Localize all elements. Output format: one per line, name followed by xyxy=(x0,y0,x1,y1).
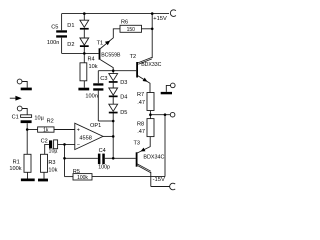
svg-text:R6: R6 xyxy=(121,20,128,26)
svg-text:10µ: 10µ xyxy=(34,116,44,122)
wire feedback horizontal to R5 xyxy=(92,176,165,178)
svg-text:−: − xyxy=(77,143,80,149)
wire op-amp output xyxy=(103,135,113,137)
svg-text:100p: 100p xyxy=(98,164,110,170)
diode D4 xyxy=(109,88,118,95)
input signal arrow xyxy=(15,96,21,101)
junction rail D1 xyxy=(83,12,86,15)
capacitor C5 plate 1 xyxy=(56,30,67,32)
wire top +15V rail xyxy=(62,13,169,15)
svg-text:BDX34C: BDX34C xyxy=(143,155,164,161)
wire base wire C5 to T1 xyxy=(62,52,99,54)
svg-text:T2: T2 xyxy=(130,54,137,60)
junction feedback output xyxy=(164,113,167,116)
wire T3 collector vertical xyxy=(150,172,152,187)
resistor R8 xyxy=(147,119,154,137)
svg-text:R8: R8 xyxy=(137,121,144,127)
wire D1 to D2 xyxy=(83,30,85,38)
resistor R4 xyxy=(80,63,87,81)
svg-text:.47: .47 xyxy=(137,129,145,135)
wire -15V rail xyxy=(151,186,170,188)
junction rail T2 collector xyxy=(151,12,154,15)
resistor R7 xyxy=(147,93,154,111)
ground speaker xyxy=(161,92,172,94)
capacitor C3 plate 1 xyxy=(93,83,103,85)
wire R2 left xyxy=(27,129,37,131)
transistor T3 bar xyxy=(136,152,138,166)
svg-text:+: + xyxy=(77,128,80,134)
junction base wire xyxy=(83,52,86,55)
diode D4 cathode bar xyxy=(109,96,118,98)
wire node A horizontal C3 to T2 base xyxy=(98,70,136,72)
ground input terminal xyxy=(21,88,32,91)
svg-text:D4: D4 xyxy=(120,95,127,101)
svg-text:R2: R2 xyxy=(47,118,54,124)
svg-text:C1: C1 xyxy=(12,115,19,121)
diode D3 cathode bar xyxy=(109,81,118,83)
transistor T3 emitter arrow xyxy=(141,148,146,152)
wire T1 emitter to R6 left xyxy=(100,29,120,49)
wire rail to D1 xyxy=(83,14,85,21)
svg-text:R7: R7 xyxy=(137,92,144,98)
ground R1 xyxy=(21,179,35,182)
wire R4 to ground xyxy=(83,81,85,88)
svg-text:10µ: 10µ xyxy=(49,148,58,154)
wire D5 to output column xyxy=(112,113,114,159)
svg-text:BDX33C: BDX33C xyxy=(141,62,161,68)
wire C3 bottom to node B xyxy=(98,120,113,122)
capacitor C2 negative plate xyxy=(49,140,52,148)
svg-text:T1: T1 xyxy=(97,40,104,46)
diode D1 cathode bar xyxy=(80,28,89,30)
wire T2 emitter to R7 xyxy=(138,76,150,93)
svg-text:BC559B: BC559B xyxy=(101,53,121,59)
capacitor C1 positive plate xyxy=(21,115,32,118)
wire speaker ground terminal xyxy=(166,85,170,92)
svg-text:+15V: +15V xyxy=(153,16,167,22)
svg-text:150: 150 xyxy=(127,27,136,33)
input signal terminal xyxy=(17,106,22,111)
wire junction to R4 xyxy=(83,53,85,62)
svg-text:4558: 4558 xyxy=(79,135,91,141)
junction node B xyxy=(112,120,115,123)
wire junction to R1 xyxy=(26,130,28,155)
capacitor C3 plate 2 xyxy=(93,88,103,90)
svg-text:R1: R1 xyxy=(13,160,20,166)
diode D1 xyxy=(80,20,89,27)
wire output node to R8 xyxy=(149,115,151,119)
wire T1 collector to node A xyxy=(100,60,113,71)
transistor T2 emitter arrow xyxy=(143,78,148,82)
svg-text:R4: R4 xyxy=(88,57,95,63)
wire T3 base wire from C4 node xyxy=(113,157,136,159)
wire C5 top stub xyxy=(61,14,63,31)
wire inverting feedback vertical xyxy=(64,144,66,176)
ground R3 xyxy=(38,179,48,182)
junction node A xyxy=(112,69,115,72)
wire C4 right xyxy=(105,157,113,159)
ground R4 xyxy=(78,88,89,91)
diode D2 cathode bar xyxy=(80,45,89,47)
svg-text:D2: D2 xyxy=(67,42,74,48)
wire R6 right to rail vertical xyxy=(142,28,153,30)
capacitor C1 negative plate xyxy=(21,120,32,123)
wire C2 left to R3 xyxy=(45,144,49,154)
junction C1 R2 R1 xyxy=(26,128,29,131)
transistor T1 bar xyxy=(99,48,101,59)
diode D2 xyxy=(80,38,89,45)
junction op-amp output xyxy=(112,135,115,138)
svg-text:R3: R3 xyxy=(48,160,55,166)
svg-text:D3: D3 xyxy=(120,80,127,86)
svg-text:10k: 10k xyxy=(89,64,98,70)
svg-text:D1: D1 xyxy=(67,23,74,29)
supply +15V terminal arc xyxy=(170,10,176,17)
junction C4 T3 base xyxy=(112,157,115,160)
wire R7 to output node xyxy=(149,111,151,115)
diode D5 cathode bar xyxy=(109,112,118,114)
wire feedback vertical from output xyxy=(164,115,166,177)
capacitor C4 plate 1 xyxy=(98,154,101,165)
svg-text:10k: 10k xyxy=(48,167,57,173)
junction R7 R8 output xyxy=(149,113,152,116)
output terminal xyxy=(170,112,175,117)
svg-text:OP1: OP1 xyxy=(90,123,101,129)
capacitor C4 plate 2 xyxy=(102,154,105,165)
junction C4 left xyxy=(63,157,66,160)
capacitor C5 plate 2 xyxy=(56,35,67,37)
svg-text:100k: 100k xyxy=(9,166,21,172)
junction inverting input xyxy=(63,143,66,146)
speaker ground terminal xyxy=(171,83,176,88)
capacitor C2 positive plate xyxy=(54,140,58,149)
svg-text:-15V: -15V xyxy=(153,177,165,183)
wire C4 left xyxy=(65,157,98,159)
diode D5 xyxy=(109,104,118,111)
svg-text:100n: 100n xyxy=(47,40,59,46)
wire C1 to junction xyxy=(26,123,28,129)
supply -15V terminal arc xyxy=(170,183,176,190)
wire R1 to ground xyxy=(27,172,29,178)
resistor R5 xyxy=(73,174,92,180)
resistor R2 xyxy=(38,127,54,132)
wire T2 collector diagonal xyxy=(138,57,152,64)
wire output node to terminal xyxy=(150,114,170,116)
transistor T1 emitter arrow xyxy=(105,41,110,46)
svg-text:100n: 100n xyxy=(85,94,97,100)
wire C3 bottom stub xyxy=(97,91,99,121)
resistor R3 xyxy=(41,154,48,172)
transistor T2 bar xyxy=(136,62,138,78)
wire input ground terminal xyxy=(22,82,27,88)
svg-text:T3: T3 xyxy=(134,141,141,147)
svg-text:D5: D5 xyxy=(120,110,127,116)
wire R8 to T3 emitter xyxy=(138,137,151,153)
resistor R1 xyxy=(24,154,31,172)
wire node A to D3 xyxy=(112,71,114,74)
op-amp OP1 xyxy=(75,123,103,149)
wire T3 collector to -15V xyxy=(137,164,150,173)
wire input arrow lead xyxy=(10,97,16,99)
svg-text:1k: 1k xyxy=(43,127,49,133)
svg-text:C3: C3 xyxy=(100,76,107,82)
wire C5 bottom stub to base wire xyxy=(61,38,63,54)
wire non-inverting input xyxy=(54,129,75,131)
svg-text:C2: C2 xyxy=(41,139,48,145)
svg-text:C4: C4 xyxy=(99,148,106,154)
wire D4 to D5 xyxy=(112,97,114,104)
wire inverting input xyxy=(58,143,75,145)
svg-text:C5: C5 xyxy=(51,24,58,30)
wire D2 to junction xyxy=(83,47,85,54)
wire R3 to ground xyxy=(43,172,45,178)
resistor R6 xyxy=(120,25,142,32)
junction R6 right xyxy=(151,28,154,31)
wire T2 collector vertical xyxy=(151,14,153,59)
diode D3 xyxy=(109,74,118,81)
wire C3 top stub xyxy=(97,71,99,84)
wire D3 to D4 xyxy=(112,83,114,88)
wire input terminal to C1 xyxy=(22,109,27,115)
svg-text:100k: 100k xyxy=(77,175,88,181)
svg-text:.47: .47 xyxy=(137,100,145,106)
input ground terminal xyxy=(17,79,22,84)
wire R5 left to inverting column xyxy=(65,176,74,178)
